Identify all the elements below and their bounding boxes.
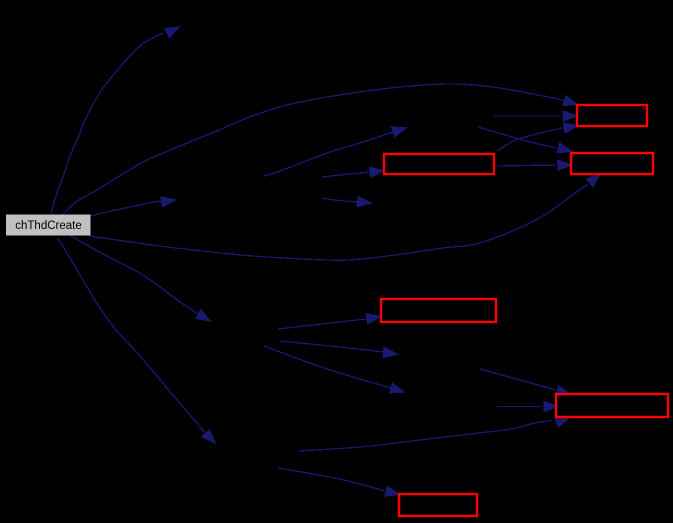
node B (red box, right)	[571, 153, 653, 174]
edge hidden hub n5 to node D	[278, 314, 381, 330]
node A (red box, top right)	[577, 105, 647, 126]
svg-text:chThdCreate: chThdCreate	[15, 220, 81, 232]
edge chThdCreate to hidden node n2	[90, 197, 176, 216]
node E (red box, bottom right)	[556, 394, 668, 417]
edge chThdCreate to node A (long top arc)	[63, 84, 578, 214]
edge hidden hub n5 to hidden node n8	[264, 346, 405, 393]
edge hidden hub n6 to node E (bottom arc)	[299, 417, 570, 451]
edge hidden node n7 to node E	[480, 369, 571, 396]
edge chThdCreate to hidden node n1 (top)	[51, 27, 180, 213]
node chThdCreate (gray root box)	[6, 215, 91, 236]
edge hidden node n2 to node C	[322, 167, 384, 177]
edge hidden hub n5 to hidden node n7	[280, 341, 398, 358]
edge chThdCreate to hidden hub node n5	[71, 236, 211, 321]
node D (red box, middle lower)	[381, 299, 496, 322]
edge node C to node A	[497, 123, 578, 151]
edge hidden node n2 to hidden node n3	[264, 127, 407, 176]
edge node C to node B	[497, 160, 572, 170]
node F (red box, bottom)	[399, 494, 477, 516]
edge hidden node n3 to node A	[493, 111, 577, 121]
edge hidden node n2 to hidden node n4	[322, 196, 372, 206]
edge chThdCreate to node B (long bottom arc)	[89, 174, 601, 261]
edge hidden node n3 to node B	[478, 127, 572, 153]
edge chThdCreate to hidden hub node n6	[58, 238, 215, 443]
edge hidden hub n6 to node F	[278, 468, 400, 496]
node C (red box, middle)	[384, 154, 494, 174]
edge hidden node n8 to node E	[497, 401, 558, 411]
